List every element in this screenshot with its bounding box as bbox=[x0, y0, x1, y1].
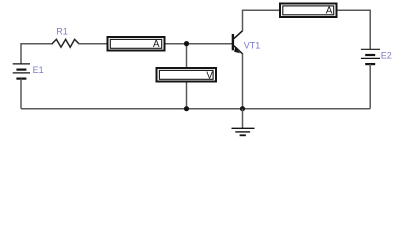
ammeter A (left) bbox=[108, 37, 165, 51]
wire bbox=[21, 108, 370, 110]
node junction (base/voltmeter) bbox=[184, 41, 189, 46]
node junction (emitter bottom) bbox=[240, 106, 245, 111]
ammeter A (right) bbox=[280, 4, 337, 18]
voltmeter V bbox=[157, 68, 217, 82]
wire bbox=[20, 79, 22, 109]
transistor VT1 bbox=[232, 31, 261, 54]
node junction (voltmeter bottom) bbox=[184, 106, 189, 111]
wire bbox=[242, 54, 244, 109]
svg-text:E1: E1 bbox=[33, 65, 44, 75]
svg-text:A: A bbox=[153, 39, 160, 50]
resistor R1 bbox=[52, 27, 79, 48]
svg-text:A: A bbox=[326, 6, 333, 17]
wire bbox=[243, 10, 280, 31]
battery E1 bbox=[13, 64, 44, 79]
wire bbox=[186, 44, 188, 109]
wire bbox=[21, 44, 53, 64]
wire bbox=[166, 43, 233, 45]
svg-text:VT1: VT1 bbox=[244, 40, 261, 50]
wire bbox=[79, 43, 107, 45]
wire bbox=[369, 64, 371, 109]
wire bbox=[338, 10, 371, 49]
ground bbox=[232, 109, 255, 136]
svg-text:R1: R1 bbox=[56, 27, 68, 37]
battery E2 bbox=[361, 49, 392, 64]
svg-text:V: V bbox=[206, 70, 213, 81]
svg-text:E2: E2 bbox=[381, 51, 392, 61]
